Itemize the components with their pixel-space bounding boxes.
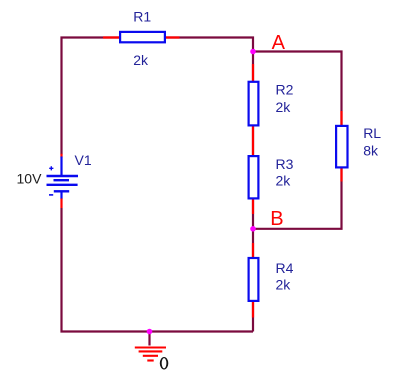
svg-text:B: B [270,208,283,230]
resistor R4 leads [252,243,254,318]
svg-text:R2: R2 [276,82,294,98]
ground symbol [135,348,166,361]
resistor R2 leads [252,64,254,156]
resistor R1 body [120,32,165,42]
svg-text:8k: 8k [363,143,379,159]
resistor RL leads [340,111,342,182]
svg-text:RL: RL [363,125,381,141]
svg-text:A: A [272,32,286,54]
svg-text:10V: 10V [17,171,43,187]
resistor R2 body [249,82,259,126]
svg-text:R4: R4 [276,260,294,276]
resistor R1 leads [103,36,180,38]
resistor R3 lead bottom [252,199,254,214]
svg-text:2k: 2k [276,277,292,293]
resistor R4 body [249,258,259,301]
resistor R3 body [249,156,259,198]
battery V1 symbol [47,157,79,199]
svg-text:2k: 2k [276,173,292,189]
node B dot [250,226,256,232]
ground junction dot [147,329,153,335]
node A dot [250,49,256,55]
resistor RL body [336,126,347,167]
wire: ground stub [148,332,150,346]
ground net label 0 [160,357,169,370]
wire: bottom run and left vertical lower part [62,208,254,332]
wire: node A right branch through RL to node B [253,52,342,229]
source V1 pin leads [60,154,62,208]
wire: middle vertical branch R2-R3-R4 [252,52,254,332]
svg-text:2k: 2k [133,52,149,68]
svg-text:V1: V1 [75,152,92,168]
svg-text:R1: R1 [133,9,151,25]
svg-text:R3: R3 [276,156,294,172]
svg-text:2k: 2k [276,99,292,115]
wire: left vertical upper part and top run [62,38,254,155]
